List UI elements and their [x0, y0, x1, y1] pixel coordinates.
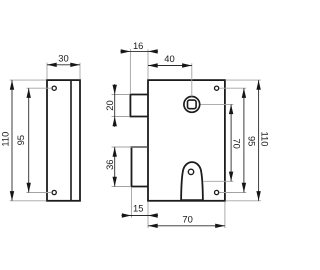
dim line 110 right	[258, 80, 260, 201]
arrow 70 right bottom	[229, 172, 233, 182]
arrow 70 right top	[229, 104, 233, 114]
svg-text:20: 20	[104, 100, 115, 110]
dim line 20	[114, 84, 116, 127]
dim line 16	[120, 50, 158, 52]
arrow 16 right (outside)	[148, 49, 158, 53]
svg-text:110: 110	[260, 132, 271, 147]
ext: deadbolt bottom to 36 dim	[112, 186, 131, 188]
keyhole escutcheon	[181, 162, 203, 200]
dim line 95 right	[243, 88, 245, 192]
EXTENSION LINES (thin gray)	[10, 49, 261, 228]
lock case outline	[148, 80, 225, 201]
dim line 70 bottom	[148, 225, 225, 227]
follower square hole	[188, 100, 197, 109]
arrow 110 left bottom	[10, 191, 14, 201]
ARROWHEADS (filled)	[10, 49, 261, 228]
svg-text:16: 16	[133, 40, 143, 51]
dim line 15	[122, 215, 159, 217]
arrow 20 bottom (outside)	[113, 117, 117, 127]
svg-text:36: 36	[104, 159, 115, 169]
ext: case right edge down to 70 dim	[224, 202, 226, 229]
follower outer circle	[184, 97, 200, 113]
svg-text:95: 95	[15, 135, 26, 145]
dim line 40	[148, 65, 192, 67]
arrow 70 bottom right	[215, 224, 225, 228]
faceplate outline	[47, 80, 80, 201]
arrow 20 top (outside)	[113, 85, 117, 95]
svg-text:70: 70	[232, 138, 243, 148]
arrow 95 right top	[242, 88, 246, 98]
arrow 15 left (outside)	[122, 213, 132, 217]
arrow 36 bottom	[113, 177, 117, 187]
top screw hole (side view)	[52, 86, 56, 90]
dim line 95 left	[28, 88, 30, 192]
dim line 70 right	[230, 104, 232, 181]
svg-text:40: 40	[164, 53, 174, 64]
dim line 30	[47, 64, 80, 66]
ext: case bottom to right 110 dim	[226, 200, 261, 202]
ext: plate right edge up to 30 dim	[79, 63, 81, 80]
ext: case left edge up to 16/40 dims	[147, 49, 149, 79]
svg-text:15: 15	[133, 203, 143, 214]
arrow 30 left	[47, 63, 57, 67]
arrow 30 right	[70, 63, 80, 67]
svg-text:70: 70	[182, 213, 192, 224]
arrow 36 top	[113, 147, 117, 157]
keyhole circle	[188, 169, 193, 174]
arrow 110 left top	[10, 80, 14, 90]
dim line 36	[114, 147, 116, 187]
latch bolt protrusion	[130, 95, 148, 117]
ext: latch front up to 16 dim	[129, 49, 131, 94]
arrow 110 right bottom	[256, 191, 260, 201]
ext: latch bottom to 20 dim	[112, 116, 130, 118]
ext: top hole to 95 dim	[26, 87, 51, 89]
bottom screw hole (front view)	[215, 190, 219, 194]
dim line 110 left	[11, 80, 13, 201]
arrow 70 bottom left	[148, 224, 158, 228]
ext: latch top to 20 dim	[112, 94, 130, 96]
ext: keyhole axis to right 70 dim	[204, 180, 234, 182]
ext: deadbolt front down to 15 dim	[131, 187, 133, 218]
ext: bottom hole to 95 dim	[26, 192, 51, 194]
ext: plate top to 110 dim	[10, 79, 46, 81]
ext: top screw hole to right 95 dim	[220, 87, 247, 89]
ext: case left edge down to 15/70 dims	[147, 202, 149, 229]
deadbolt protrusion	[132, 147, 149, 187]
top screw hole (front view)	[215, 86, 219, 90]
svg-text:110: 110	[0, 132, 11, 147]
ext: plate left edge up to 30 dim	[46, 63, 48, 80]
DIMENSION TEXTS	[0, 40, 270, 224]
bottom screw hole (side view)	[52, 190, 56, 194]
arrow 95 right bottom	[242, 183, 246, 193]
svg-text:95: 95	[246, 136, 257, 146]
arrow 110 right top	[256, 80, 260, 90]
ext: plate bottom to 110 dim	[10, 200, 46, 202]
ext: follower centre up to 40 dim	[191, 63, 193, 96]
arrow 95 left bottom	[27, 183, 31, 193]
DIMENSION LINES (thin dark)	[12, 51, 259, 225]
arrow 16 left (outside)	[121, 49, 131, 53]
arrow 15 right (outside)	[148, 213, 158, 217]
ext: deadbolt top to 36 dim	[112, 146, 148, 148]
faceplate bend line	[70, 80, 72, 201]
arrow 95 left top	[27, 88, 31, 98]
arrow 40 left	[148, 63, 158, 67]
ext: follower centre to right 70 dim	[201, 103, 234, 105]
ext: case top to right 110 dim	[226, 79, 261, 81]
ext: bottom screw hole to right 95 dim	[220, 192, 247, 194]
arrow 40 right	[182, 63, 192, 67]
svg-text:30: 30	[58, 52, 68, 63]
